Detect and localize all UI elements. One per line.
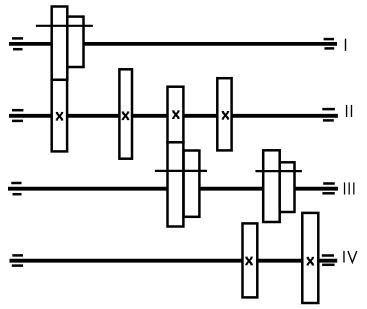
small gear of right block on shaft III xyxy=(280,162,295,212)
large gear of right block on shaft III xyxy=(263,150,280,222)
bearing right of shaft III xyxy=(322,184,334,194)
large gear on shaft III (lower of tall block) xyxy=(168,142,184,226)
shaft I xyxy=(9,42,337,46)
gear 2 on shaft II xyxy=(119,69,132,158)
bearing left of shaft I xyxy=(12,38,23,49)
x mark on shaft II gear 2 xyxy=(122,112,130,119)
bearing right of shaft I xyxy=(324,39,335,48)
shaft IV xyxy=(10,259,338,263)
label shaft I xyxy=(345,39,346,51)
label shaft II xyxy=(346,105,352,117)
x mark on shaft II gear 3 xyxy=(172,111,180,118)
small gear on shaft III (right of tall block) xyxy=(184,151,200,217)
axis line through shaft III left gear block xyxy=(155,170,207,172)
gear 3 on shaft II (upper of tall block) xyxy=(168,87,184,143)
axis line through shaft III right gear block xyxy=(255,170,302,172)
x mark on shaft IV gear 5 xyxy=(245,257,253,264)
x mark on shaft II gear 1 xyxy=(56,113,64,120)
bearing left of shaft IV xyxy=(12,255,23,265)
gear Z2 small on shaft I xyxy=(67,17,83,67)
gear 5 on shaft IV xyxy=(243,223,258,297)
axis line through shaft I gear block xyxy=(36,25,93,27)
label shaft IV xyxy=(343,251,357,263)
x mark on shaft IV gear 6 xyxy=(307,258,315,265)
bearing left of shaft III xyxy=(11,183,21,194)
x mark on shaft II gear 4 xyxy=(222,112,230,119)
gear 6 on shaft IV xyxy=(302,213,318,303)
bearing left of shaft II xyxy=(12,110,23,121)
label shaft III xyxy=(344,182,355,194)
gear Z1 large on shaft I (tall rect) xyxy=(52,7,68,80)
gear 4 on shaft II xyxy=(217,78,231,150)
shaft II xyxy=(9,114,338,118)
bearing right of shaft IV xyxy=(322,256,335,265)
shaft III xyxy=(8,187,338,191)
bearing right of shaft II xyxy=(322,109,335,120)
gear on shaft II meshing with Z1 xyxy=(52,80,67,152)
